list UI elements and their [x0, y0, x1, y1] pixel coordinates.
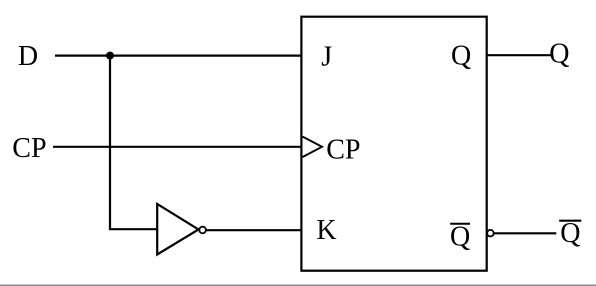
- wire junction to inverter input: [109, 228, 158, 230]
- svg-text:CP: CP: [326, 134, 360, 165]
- svg-text:Q: Q: [451, 40, 471, 71]
- svg-text:Q: Q: [560, 218, 580, 249]
- wire junction down: [109, 56, 111, 230]
- label Q-bar overbar: [559, 220, 581, 222]
- svg-text:Q: Q: [549, 39, 569, 70]
- Q-bar output bubble: [487, 230, 494, 237]
- pin label Q-bar overbar: [450, 223, 470, 225]
- inverter U2 output bubble: [199, 227, 206, 234]
- node junction on D wire: [106, 52, 114, 60]
- svg-text:K: K: [316, 215, 336, 246]
- inverter U2 triangle: [157, 204, 198, 255]
- wire Q-bar output: [494, 232, 556, 234]
- wire CP to clock input: [53, 146, 302, 148]
- wire D to J input: [55, 54, 302, 56]
- wire Q output: [487, 54, 551, 56]
- svg-text:J: J: [321, 41, 332, 72]
- JK flip-flop U1 body: [301, 17, 486, 271]
- svg-text:Q: Q: [450, 221, 470, 252]
- wire inverter to K input: [206, 229, 302, 231]
- clock edge triangle: [303, 137, 322, 157]
- svg-text:CP: CP: [12, 133, 46, 164]
- svg-text:D: D: [18, 41, 38, 72]
